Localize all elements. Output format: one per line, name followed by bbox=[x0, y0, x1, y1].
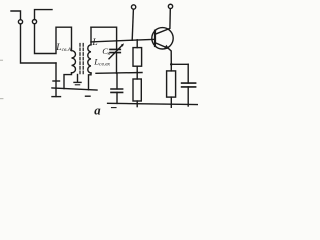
label LсвА bbox=[55, 43, 72, 53]
ground rail left bbox=[52, 88, 97, 90]
wire bbox=[55, 63, 57, 97]
scan noise mark bbox=[0, 98, 3, 100]
svg-text:св.А: св.А bbox=[62, 47, 72, 53]
label Cк bbox=[102, 46, 110, 57]
inductor LсвА (primary coil) bbox=[72, 51, 76, 73]
capacitor C2 bbox=[111, 73, 123, 103]
wire bbox=[35, 24, 72, 54]
resistor R1 bbox=[133, 40, 142, 73]
wire bbox=[21, 24, 57, 63]
wire (top bridge) bbox=[91, 27, 117, 49]
svg-text:L: L bbox=[55, 43, 61, 53]
resistor R3 bbox=[167, 64, 176, 107]
capacitor C3 bbox=[182, 64, 196, 106]
terminal X2 (ground clamp) bbox=[32, 10, 52, 24]
node (emitter junction) bbox=[170, 63, 173, 66]
terminal X3 (supply, top middle) bbox=[131, 5, 135, 40]
terminal X1 (antenna clamp) bbox=[11, 11, 23, 24]
svg-text:к: к bbox=[108, 51, 111, 57]
ground rail right bbox=[108, 103, 198, 104]
wire bbox=[171, 63, 188, 65]
rail end tick bbox=[86, 95, 91, 97]
scan noise mark bbox=[0, 59, 3, 61]
svg-text:св.вх: св.вх bbox=[99, 62, 111, 68]
screen ground bbox=[74, 75, 81, 85]
wire (primary bottom) bbox=[64, 73, 72, 89]
svg-text:а: а bbox=[94, 103, 101, 117]
wire (bias node) bbox=[96, 72, 142, 75]
tick below rail at C2 bbox=[112, 107, 117, 109]
inductor L (secondary coil) bbox=[88, 45, 91, 73]
wire (secondary top lead) bbox=[90, 27, 92, 45]
label Lсв.вх bbox=[93, 56, 110, 67]
terminal X4 (collector supply, top right) bbox=[168, 4, 172, 8]
resistor R2 bbox=[133, 73, 141, 107]
ground bar bbox=[52, 96, 61, 98]
transistor VT1 bbox=[152, 9, 173, 64]
transformer core (dashed) bbox=[79, 44, 81, 75]
capacitor plate bar bbox=[53, 80, 60, 82]
wire (base line) bbox=[91, 39, 155, 42]
wire (secondary bottom lead) bbox=[89, 73, 92, 90]
variable capacitor Cк bbox=[109, 43, 124, 73]
svg-text:L: L bbox=[91, 38, 97, 48]
